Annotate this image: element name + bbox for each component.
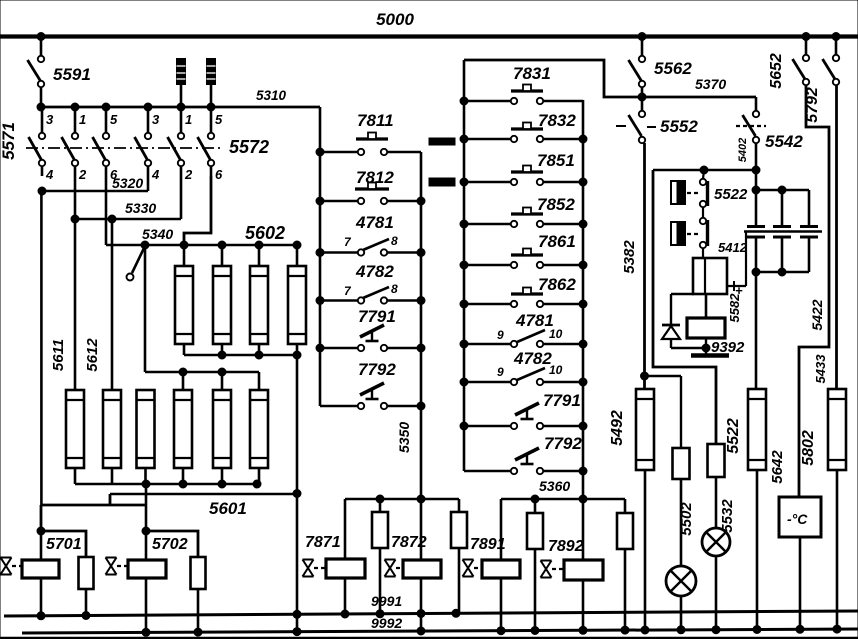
node 9991 x297: [293, 610, 301, 618]
wire mid left rail: [319, 107, 322, 406]
pin label 5 top 6: [215, 112, 223, 127]
lamp 5532: [702, 528, 730, 631]
node midrail y252.5: [316, 249, 324, 257]
switch contact 557x-1: [29, 107, 46, 176]
rcol row 7 stubs: [464, 379, 583, 385]
node rcol right y382: [579, 378, 587, 386]
node cap bot a: [752, 268, 760, 276]
ground symbol: [691, 353, 729, 358]
svg-text:9: 9: [497, 365, 504, 379]
svg-text:5652: 5652: [768, 53, 785, 89]
wire 5522 down: [755, 272, 758, 389]
wire bus below 5602: [184, 354, 297, 357]
svg-text:8: 8: [391, 282, 398, 296]
node rcol left y426: [460, 422, 468, 430]
node midrail right y201: [417, 197, 425, 205]
wire bus 372: [145, 371, 259, 374]
switch contact 557x-4: [135, 107, 152, 176]
node bus 5310 x41: [37, 103, 45, 111]
svg-text:5340: 5340: [142, 226, 173, 242]
node 5330 a: [71, 215, 79, 223]
node bus355 x297: [293, 351, 301, 359]
pushbutton 7851: [511, 151, 575, 172]
node bus355 x259: [255, 351, 263, 359]
svg-text:9992: 9992: [371, 615, 402, 631]
node 5370: [638, 93, 646, 101]
resistor 5702: [146, 531, 206, 631]
svg-text:5320: 5320: [112, 175, 143, 191]
switch 5552: [616, 97, 698, 143]
svg-text:5702: 5702: [152, 536, 188, 553]
node 5601 x297: [293, 490, 301, 498]
svg-text:7892: 7892: [548, 538, 584, 555]
relay coil 7892: [548, 538, 603, 631]
node 9991 x86: [82, 612, 90, 620]
node 9992 x421: [417, 627, 425, 635]
wire 5502 feed: [645, 376, 682, 448]
wire 5422 run: [799, 85, 829, 497]
svg-text:7851: 7851: [537, 151, 575, 170]
resistor 5602.3: [250, 245, 268, 355]
temp sensor -C: [779, 497, 821, 631]
switch contact 557x-5: [168, 107, 185, 176]
node bus 5310 x106: [102, 103, 110, 111]
pushbutton 7832: [511, 111, 576, 130]
node on bus 5000 at 5652: [802, 33, 810, 41]
svg-text:9: 9: [497, 328, 504, 342]
svg-text:1: 1: [79, 112, 86, 127]
node bus484 x257: [253, 480, 261, 488]
svg-text:2: 2: [78, 167, 87, 182]
mid row 5 stubs: [320, 403, 421, 409]
wire bus 9991: [4, 593, 858, 616]
switch 5792: [804, 36, 839, 123]
pin label 2 bottom 2: [78, 167, 87, 182]
pin label 1 top 2: [79, 112, 86, 127]
resistor 7891: [527, 499, 543, 631]
wire cap common plate: [744, 230, 822, 232]
node 9992 x146: [142, 628, 150, 636]
svg-text:5433: 5433: [813, 354, 828, 384]
svg-text:5532: 5532: [719, 499, 736, 533]
node segA x380: [376, 495, 384, 503]
wire 5792 run: [835, 85, 838, 389]
node bus 5340 x145: [141, 241, 149, 249]
node midrail right y406: [417, 402, 425, 410]
relay coil 5701: [22, 531, 82, 614]
resistor 5802: [800, 389, 846, 631]
resistor 7892: [617, 499, 633, 631]
node bus 5340 x222: [218, 241, 226, 249]
label 5611: [50, 339, 67, 371]
contact 7791 right: [515, 391, 581, 419]
node midrail right y348: [417, 344, 425, 352]
svg-text:5402: 5402: [737, 138, 749, 162]
pin label 6 bottom 3: [110, 167, 118, 182]
label 5402: [737, 138, 749, 162]
valve 7891: [463, 560, 483, 577]
node 9992 x535: [531, 627, 539, 635]
pin label 1 top 5: [185, 112, 192, 127]
node 9992 x297: [293, 628, 301, 636]
node 9991 x41: [37, 612, 45, 620]
contact 7792 right: [515, 434, 582, 464]
contact 4781 right: [497, 311, 563, 342]
resistor segA right: [451, 499, 467, 614]
plug 5522 lower: [671, 222, 699, 245]
pin label 5 top 3: [110, 112, 118, 127]
node rcol left y224: [460, 220, 468, 228]
node box top: [700, 166, 708, 174]
node rcol right y344: [579, 340, 587, 348]
pushbutton 7811: [356, 111, 394, 139]
valve 7872: [385, 560, 404, 577]
node bus 5340 end: [293, 241, 301, 249]
wire right col top link: [464, 60, 756, 97]
resistor 5602.1: [175, 245, 193, 355]
node bus 5310 x75: [71, 103, 79, 111]
pushbutton 7861: [511, 232, 576, 255]
node 9992 x501: [497, 627, 505, 635]
node 9992 x800: [796, 625, 804, 633]
pin label 4 bottom 1: [45, 167, 54, 182]
node bus 5340 x184: [180, 241, 188, 249]
switch 5542: [736, 97, 803, 151]
wire pin6 jog: [184, 176, 211, 245]
wire cap bottom bus: [756, 271, 809, 274]
node rcol left y139: [460, 135, 468, 143]
svg-text:1: 1: [185, 112, 192, 127]
node on bus 5000 at 5792: [832, 33, 840, 41]
svg-text:7791: 7791: [358, 307, 396, 326]
node bus 5340 x259: [255, 241, 263, 249]
capacitor C2: [773, 190, 791, 272]
svg-text:5350: 5350: [396, 422, 412, 453]
mid row 3 stubs: [320, 297, 421, 303]
svg-text:4782: 4782: [513, 349, 552, 368]
plus terminal: [727, 281, 746, 298]
node 5701 feed: [37, 527, 45, 535]
svg-text:7831: 7831: [513, 64, 551, 83]
rcol row 2 stubs: [464, 179, 583, 185]
svg-text:5422: 5422: [809, 299, 825, 330]
svg-text:5522: 5522: [725, 418, 742, 454]
disconnect switch 5340: [127, 246, 146, 281]
svg-text:7812: 7812: [356, 168, 394, 187]
svg-text:5802: 5802: [800, 430, 817, 466]
node cap top b: [778, 186, 786, 194]
contact 4781 mid: [344, 213, 398, 250]
label 5642: [769, 450, 786, 484]
node segB x535: [531, 495, 539, 503]
node midrail y300.5: [316, 297, 324, 305]
node 9992 x757: [753, 626, 761, 634]
contact 4782 right: [497, 349, 563, 380]
svg-text:8: 8: [391, 234, 398, 248]
node bus484 x183: [179, 480, 187, 488]
svg-text:7792: 7792: [358, 360, 396, 379]
svg-text:2: 2: [184, 167, 193, 182]
svg-text:5542: 5542: [765, 132, 803, 151]
label 5612: [84, 338, 101, 372]
svg-text:4: 4: [151, 167, 160, 182]
wire 5602 to 5601: [296, 355, 299, 631]
svg-text:7891: 7891: [470, 536, 506, 553]
node 9991 x345: [341, 610, 349, 618]
node midrail right y300.5: [417, 297, 425, 305]
svg-text:5: 5: [215, 112, 223, 127]
svg-text:9991: 9991: [371, 593, 402, 609]
wire box left: [653, 170, 716, 444]
svg-text:5492: 5492: [609, 410, 626, 446]
wire 5360 segment B: [501, 498, 625, 501]
svg-text:5612: 5612: [84, 338, 101, 372]
wire 5542 down: [755, 143, 758, 190]
node 9992 x625: [621, 626, 629, 634]
label 5571: [0, 122, 18, 160]
node rcol left y382: [460, 378, 468, 386]
label 5602: [245, 223, 285, 243]
arrester A2: [207, 59, 216, 108]
pushbutton 7852: [511, 195, 575, 214]
relay coil 9392: [687, 294, 745, 356]
rcol row 5 stubs: [464, 301, 583, 307]
node rcol right y139: [579, 135, 587, 143]
rectifier 5412: [693, 240, 748, 294]
wire diode-ground: [671, 338, 706, 354]
svg-text:5582: 5582: [727, 293, 742, 323]
wire pin4 down: [40, 191, 43, 505]
svg-text:4781: 4781: [355, 213, 394, 232]
wire bus 9992: [22, 615, 858, 633]
mid row 4 stubs: [320, 345, 421, 351]
node segB x583: [579, 495, 587, 503]
svg-text:7791: 7791: [543, 391, 581, 410]
wire 5582: [727, 231, 746, 322]
node 5542 bottom: [752, 166, 760, 174]
svg-text:5360: 5360: [539, 478, 570, 494]
node rcol left y344: [460, 340, 468, 348]
valve 7892: [541, 561, 565, 578]
node rcol right y224: [579, 220, 587, 228]
label 5422: [809, 299, 825, 330]
pushbutton 7862: [511, 275, 576, 294]
rcol row 1 stubs: [464, 136, 583, 142]
contact 7792 mid: [358, 360, 396, 399]
node 9991 x459: [452, 609, 460, 617]
node 9992 x716: [712, 626, 720, 634]
svg-text:5701: 5701: [46, 536, 82, 553]
label 5433: [813, 354, 828, 384]
resistor 5612: [103, 219, 121, 484]
svg-text:3: 3: [152, 112, 160, 127]
svg-text:5382: 5382: [621, 240, 638, 274]
rcol row 3 stubs: [464, 221, 583, 227]
label 5370: [695, 76, 726, 92]
arrester A1: [177, 59, 186, 108]
resistor 5701: [41, 531, 94, 614]
relay coil 5702: [128, 531, 188, 631]
node bus 5310 x181: [177, 103, 185, 111]
switch contact 557x-2: [62, 107, 79, 176]
svg-text:5591: 5591: [53, 65, 91, 84]
resistor 7871: [372, 499, 388, 614]
valve 5702: [106, 558, 129, 575]
wire right col left rail: [463, 60, 466, 471]
node bus372 a: [179, 368, 187, 376]
resistor 5532: [708, 444, 737, 533]
node rcol left y304: [460, 300, 468, 308]
wire mid right rail 5350: [396, 152, 421, 560]
contact 7791 mid: [358, 307, 396, 341]
node midrail y201: [316, 197, 324, 205]
node cap bot b: [778, 268, 786, 276]
pin label 3 top 4: [152, 112, 160, 127]
pushbutton 7812: [355, 168, 394, 189]
node midrail y348: [316, 344, 324, 352]
wire bus 5000: [0, 10, 858, 37]
plug 5522 upper: [671, 181, 699, 204]
node 9992 x681: [677, 626, 685, 634]
mid row 2 stubs: [320, 249, 421, 255]
node 9992 x583: [579, 626, 587, 634]
svg-text:5602: 5602: [245, 223, 285, 243]
pushbutton 7831: [511, 64, 551, 91]
node 9991 x421: [417, 610, 425, 618]
resistor 5502: [673, 448, 696, 566]
svg-text:7872: 7872: [391, 534, 427, 551]
wire bus 5310: [41, 88, 320, 107]
node 9992 x838: [833, 625, 841, 633]
node 5702 feed: [142, 527, 150, 535]
wire bus 5601: [110, 494, 297, 518]
relay coil 7871: [305, 499, 365, 614]
rcol row 6 stubs: [464, 341, 583, 347]
wire bus 5340: [106, 176, 297, 245]
svg-text:6: 6: [215, 167, 223, 182]
resistor bank2.5: [213, 372, 231, 484]
wire 5340sw down: [144, 245, 147, 372]
node bus355 x222: [218, 351, 226, 359]
node rcol right y304: [579, 300, 587, 308]
node rcol left y101: [460, 97, 468, 105]
node cap top a: [752, 186, 760, 194]
resistor bank2.6: [250, 372, 268, 484]
wire 5702 feed: [145, 484, 148, 531]
svg-text:5601: 5601: [209, 499, 247, 518]
svg-text:4: 4: [45, 167, 54, 182]
node 5382 tap: [641, 372, 649, 380]
svg-text:4781: 4781: [515, 311, 554, 330]
switch 5591: [28, 36, 91, 107]
svg-text:7792: 7792: [544, 434, 582, 453]
relay coil 7872: [391, 534, 441, 631]
wire 5360 segment A: [345, 498, 459, 501]
wire right col right rail: [582, 100, 585, 560]
label 5572: [229, 137, 269, 157]
svg-text:5552: 5552: [660, 117, 698, 136]
label 5522 chain: [714, 186, 748, 203]
wire 5382: [621, 143, 645, 389]
svg-text:3: 3: [46, 112, 54, 127]
node on bus 5000 at 5591: [37, 33, 45, 41]
feeder bar row 7832: [429, 138, 455, 145]
resistor 5602.4: [288, 245, 306, 355]
svg-text:5370: 5370: [695, 76, 726, 92]
node bus372 b: [218, 368, 226, 376]
switch contact 557x-6: [198, 107, 215, 176]
rcol row 8 stubs: [464, 423, 583, 429]
pin label 2 bottom 5: [184, 167, 193, 182]
node bus484 x146: [142, 480, 150, 488]
capacitor C3: [800, 190, 818, 272]
svg-text:5412: 5412: [718, 240, 748, 255]
svg-text:5611: 5611: [50, 339, 67, 371]
svg-text:5562: 5562: [654, 59, 692, 78]
svg-text:5642: 5642: [769, 450, 786, 484]
svg-text:7811: 7811: [357, 111, 394, 130]
contact 4782 mid: [344, 262, 398, 298]
svg-text:7862: 7862: [538, 275, 576, 294]
pin label 3 top 1: [46, 112, 54, 127]
resistor 5492: [609, 389, 654, 631]
rcol row 4 stubs: [464, 262, 583, 268]
node rcol left y182: [460, 178, 468, 186]
svg-text:-°C: -°C: [787, 511, 808, 527]
pin label 6 bottom 6: [215, 167, 223, 182]
resistor bank2.4: [174, 372, 192, 484]
mid row 0 stubs: [320, 149, 421, 155]
node 9992 x198: [194, 628, 202, 636]
resistor 5602.2: [213, 245, 231, 355]
capacitor C1: [747, 190, 765, 272]
node midrail y152: [316, 148, 324, 156]
svg-text:5572: 5572: [229, 137, 269, 157]
node rcol right y265: [579, 261, 587, 269]
resistor 5522: [725, 389, 766, 631]
svg-text:4782: 4782: [355, 262, 394, 281]
node 5330 b: [108, 215, 116, 223]
wire 5601 to 5701: [41, 494, 147, 531]
resistor bank2.3: [137, 390, 155, 484]
node 9991 x380: [376, 610, 384, 618]
lamp 5502: [666, 566, 696, 631]
node rcol right y426: [579, 422, 587, 430]
node rcol left y265: [460, 261, 468, 269]
node on bus 5000 at 5562: [638, 33, 646, 41]
node segA x421: [417, 495, 425, 503]
wire bus 484: [75, 483, 261, 486]
node ground: [702, 344, 710, 352]
node bus 5310 x211: [207, 103, 215, 111]
wire box top: [653, 169, 756, 172]
pin label 4 bottom 4: [151, 167, 160, 182]
relay coil 7891: [470, 499, 520, 631]
svg-text:5310: 5310: [256, 88, 287, 103]
rcol row 0 stubs: [464, 98, 583, 104]
svg-text:5522: 5522: [714, 186, 748, 203]
svg-text:5502: 5502: [678, 502, 695, 536]
switch 5562: [629, 36, 693, 97]
contact chain 5522: [700, 170, 708, 258]
svg-text:7861: 7861: [538, 232, 576, 251]
wire bus 5330: [75, 176, 181, 219]
label 5360: [539, 478, 570, 494]
svg-text:7871: 7871: [305, 534, 341, 551]
wire bus 5320: [42, 175, 148, 191]
switch contact 557x-3: [93, 107, 110, 176]
node rcol right y471: [579, 467, 587, 475]
